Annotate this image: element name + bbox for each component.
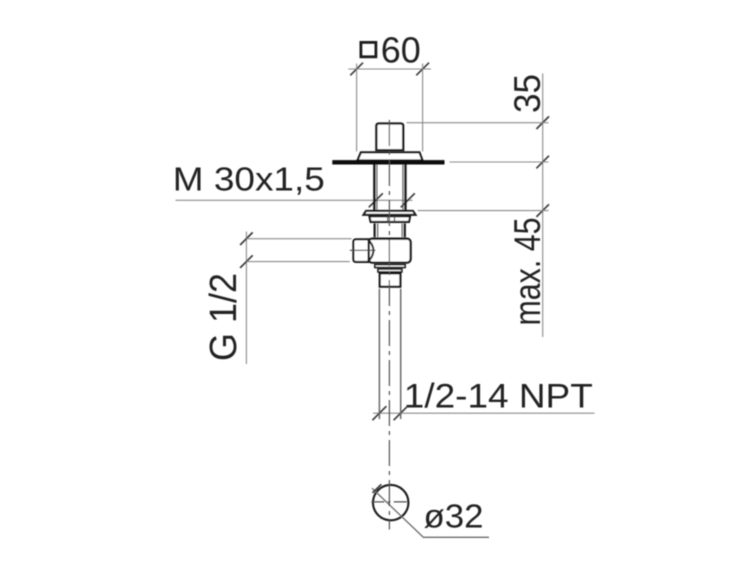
side outlet axis line — [350, 249, 376, 251]
circle horizontal centerline — [371, 501, 409, 503]
pipe tick right — [394, 406, 408, 420]
extension line outlet bottom — [246, 261, 349, 263]
lower locknut step — [378, 269, 402, 272]
thread tick right — [401, 193, 415, 207]
side outlet cap — [353, 239, 368, 262]
locknut facet left — [387, 216, 389, 222]
mid tube outer right — [404, 223, 406, 237]
side outlet curvature arc — [368, 240, 374, 262]
svg-text:35: 35 — [507, 74, 548, 113]
pipe tick left — [372, 406, 386, 420]
mid tube inner right — [401, 223, 403, 237]
supply pipe wall right — [400, 289, 402, 419]
upper threaded tube outer left — [373, 165, 375, 211]
thread tick left — [369, 193, 383, 207]
diameter leader line — [372, 488, 489, 537]
mid tube inner left — [377, 223, 379, 237]
extension line right of 60 dim — [422, 64, 424, 152]
svg-text:G 1/2: G 1/2 — [203, 273, 245, 361]
extension line outlet top — [246, 238, 351, 240]
extension line left of 60 dim — [356, 64, 358, 152]
G 1/2 tick top — [240, 232, 253, 245]
extension line from plate — [450, 161, 549, 163]
svg-text:M 30x1,5: M 30x1,5 — [173, 161, 325, 198]
tick at nut top level — [536, 116, 549, 129]
tick right of 60 dim — [416, 63, 429, 76]
mid tube outer left — [374, 223, 376, 237]
mounting plate (thick) — [332, 160, 444, 164]
locknut facet right — [394, 216, 396, 222]
svg-text:60: 60 — [381, 29, 421, 70]
diameter tick — [373, 484, 382, 493]
svg-text:ø32: ø32 — [424, 498, 484, 535]
valve body — [369, 239, 411, 263]
tick left of 60 dim — [350, 63, 363, 76]
right vertical dimension line — [542, 74, 544, 338]
svg-text:max. 45: max. 45 — [507, 218, 548, 326]
tick at plate level — [536, 156, 549, 169]
upper tube thread root right — [402, 165, 404, 210]
leader underline 1/2-14 NPT — [373, 412, 595, 414]
locknut under washer — [369, 216, 410, 222]
upper threaded tube outer right — [404, 165, 406, 211]
bottom circle (pipe cross-section) — [373, 485, 408, 520]
leader underline M 30x1,5 — [176, 199, 413, 201]
square top nut — [376, 124, 403, 151]
G 1/2 tick bottom — [240, 255, 253, 268]
lower flange step — [375, 265, 405, 268]
dimension line 60 — [348, 68, 431, 70]
centerline vertical axis — [388, 120, 390, 530]
G 1/2 leader vertical line — [245, 232, 247, 365]
hex adapter — [380, 273, 401, 286]
extension line from nut top — [407, 122, 549, 124]
svg-text:1/2-14 NPT: 1/2-14 NPT — [404, 377, 593, 415]
extension line from washer — [418, 210, 549, 212]
square symbol (60 square) — [361, 42, 376, 56]
washer — [364, 211, 416, 215]
upper tube thread root left — [376, 165, 378, 210]
tick at washer level — [536, 204, 549, 217]
supply pipe wall left — [378, 289, 380, 419]
collar under nut — [357, 152, 422, 160]
